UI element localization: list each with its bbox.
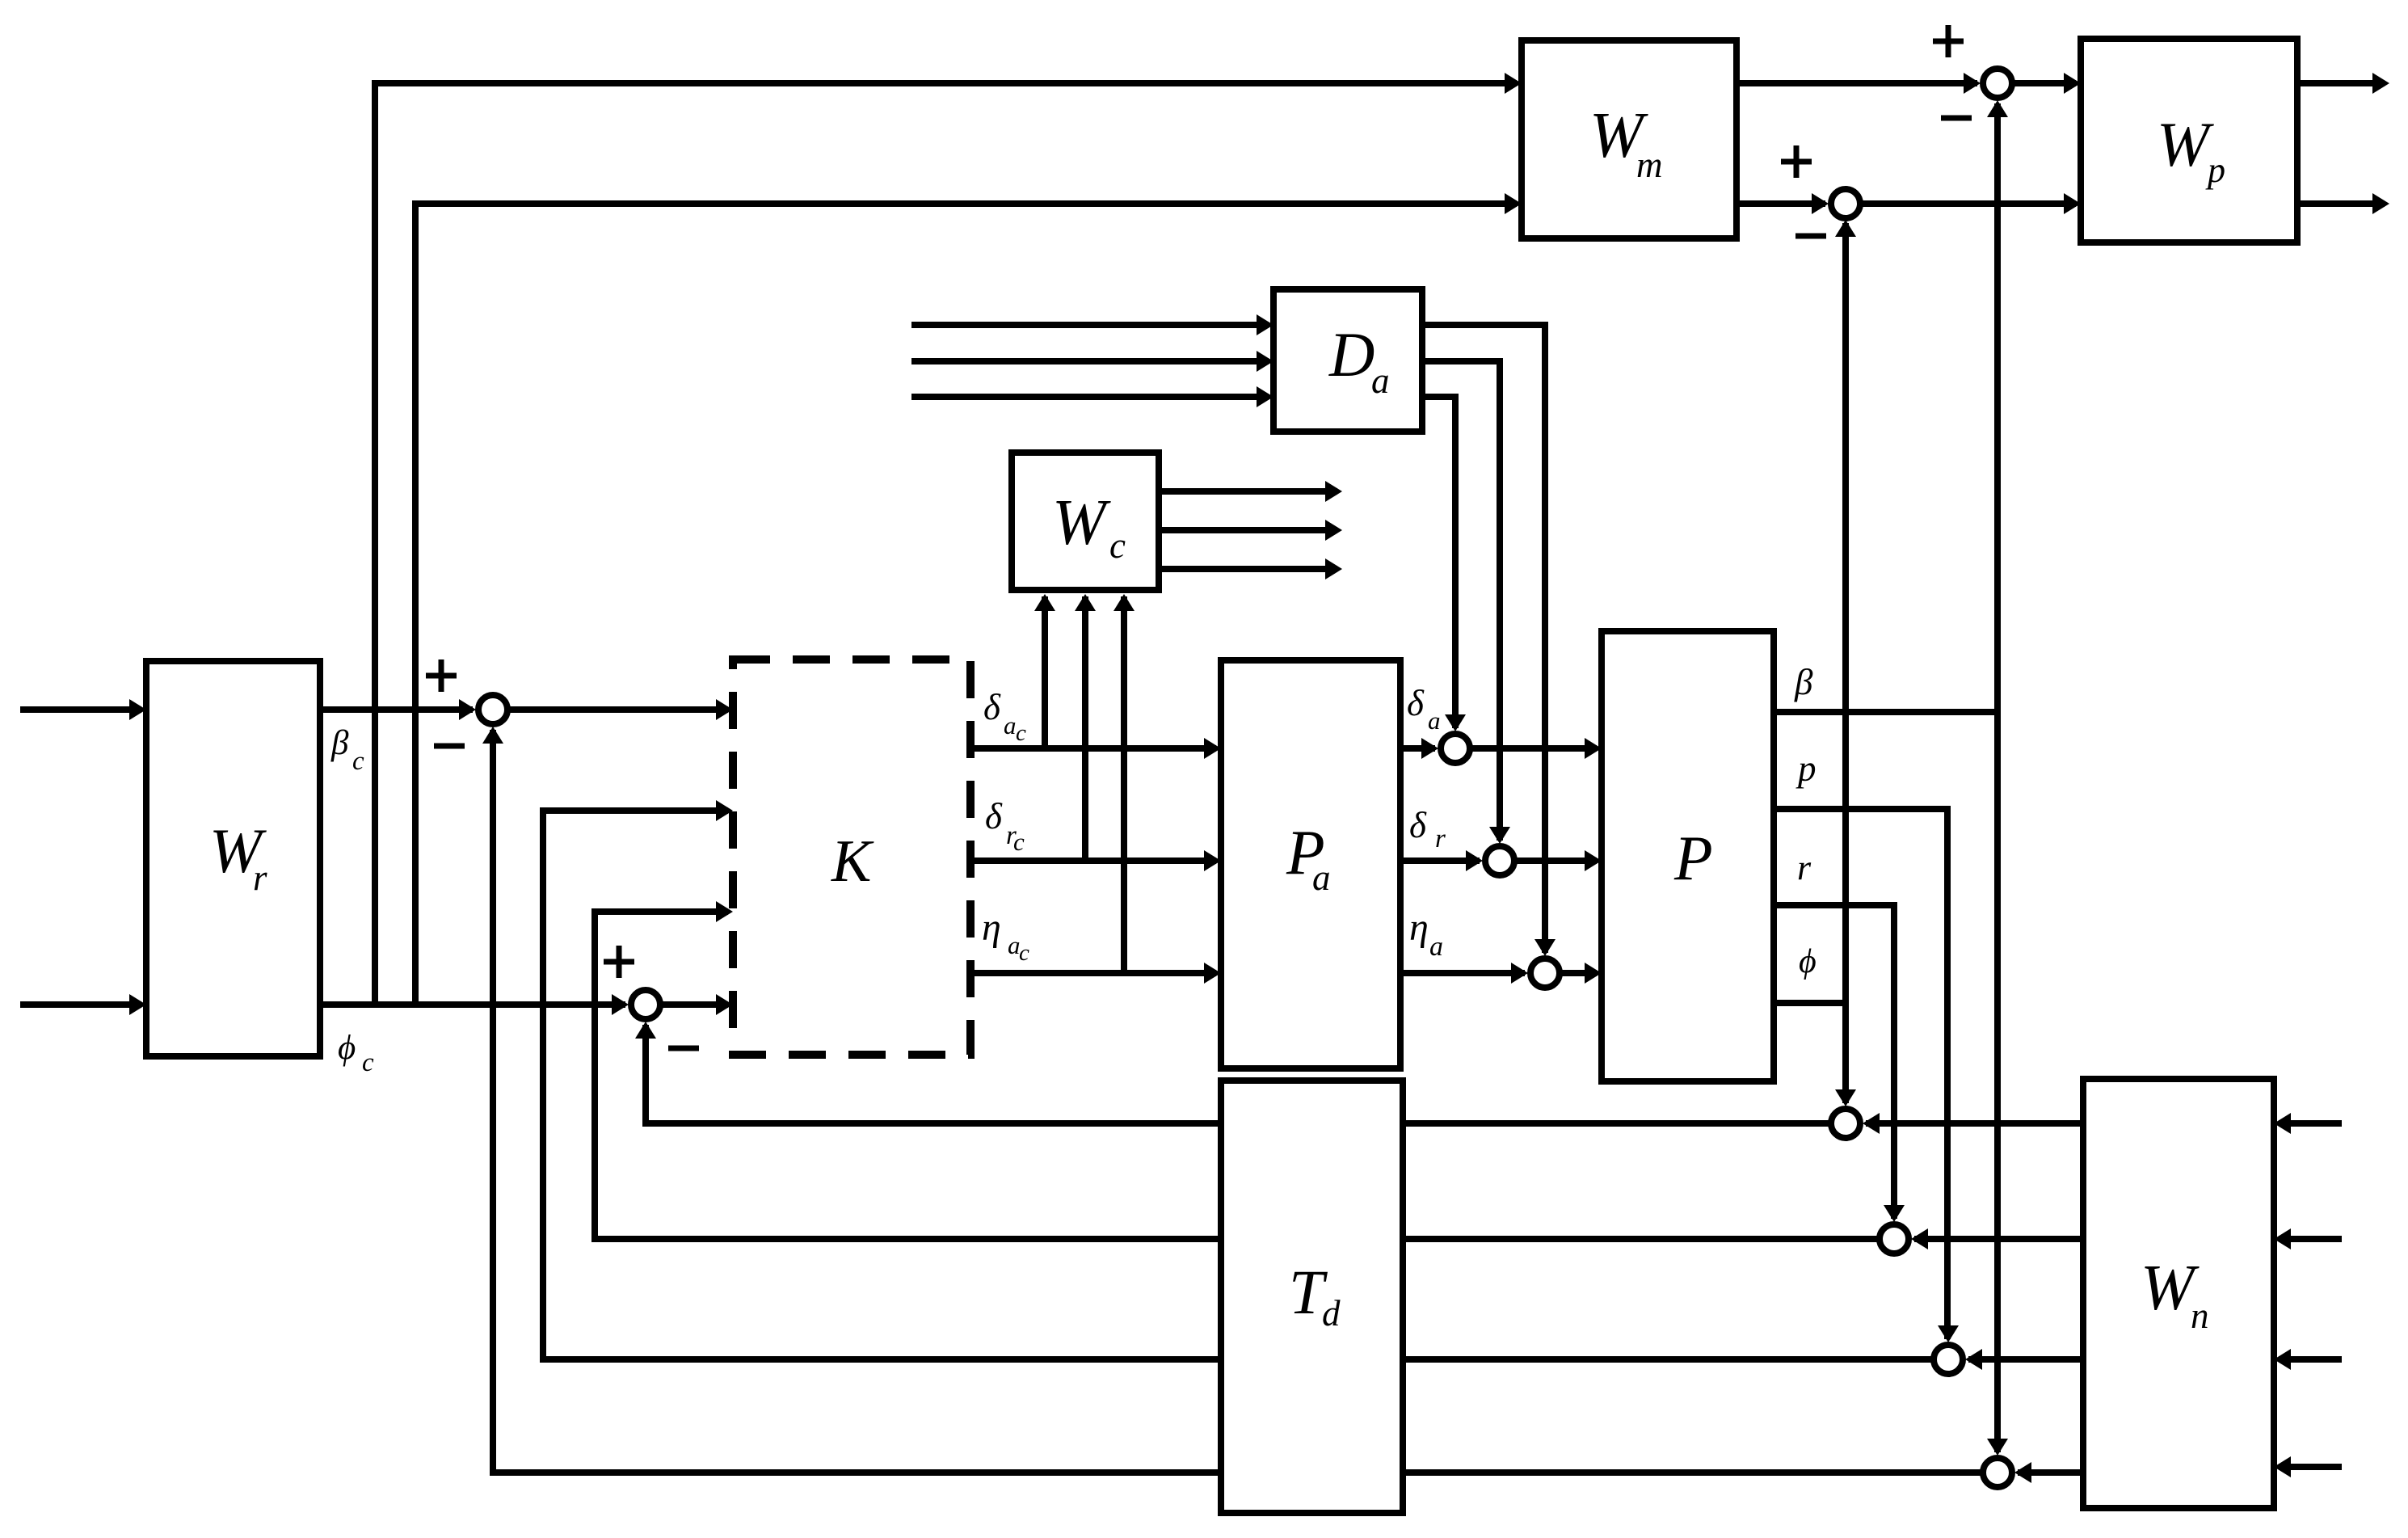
arrowhead Pa delta_a into S3: [1421, 738, 1438, 759]
wire: external input 2 into Wr: [20, 1001, 141, 1008]
wire: S3 into P input 1: [1472, 745, 1597, 752]
arrowhead riser 3 into Wc: [1113, 594, 1135, 611]
arrowhead S8 into Wp: [2064, 193, 2081, 214]
arrowhead S3 into P: [1585, 738, 1602, 759]
wire: feedback row3 (p measured) left segment, riser, into K input 2: [543, 811, 1221, 1359]
arrowhead noise input 4 into Wn: [2274, 1456, 2291, 1477]
wire: Wm output 2 into S8: [1737, 200, 1825, 207]
wire: branch up at x=514 to second line into Wm input 2: [415, 204, 1517, 1005]
svg-text:W: W: [1052, 487, 1111, 558]
wire: beta vertical from S7 down to S11: [1994, 103, 2001, 1452]
wire: P output phi row to T at x2284: [1774, 1000, 1846, 1006]
arrowhead top line into Wm input 1: [1505, 73, 1522, 94]
plus sign at S1: [426, 659, 457, 692]
plus sign at S8: [1781, 145, 1812, 178]
arrowhead Wm output 1 into S7: [1964, 73, 1981, 94]
svg-text:δ: δ: [1407, 683, 1425, 723]
svg-text:D: D: [1328, 319, 1374, 390]
arrowhead Wn output 4 into S11: [2014, 1462, 2031, 1483]
svg-text:a: a: [1428, 706, 1441, 735]
arrowhead Wc output 2: [1325, 520, 1342, 541]
block K (dashed): [733, 659, 970, 1055]
wire: Wp output 1: [2297, 80, 2385, 86]
wire: K output delta_a_c to Pa: [970, 745, 1216, 752]
block Da: [1273, 289, 1422, 432]
wire: external noise input 1 into Wn: [2279, 1120, 2342, 1127]
minus sign at S7: [1941, 116, 1972, 121]
arrowhead r vertical into S9 top: [1884, 1205, 1905, 1222]
wire: Wc output 1: [1159, 488, 1337, 495]
svg-text:m: m: [1636, 145, 1663, 185]
svg-text:p: p: [2205, 150, 2225, 190]
wire: external disturbance input 3 into Da: [911, 394, 1269, 400]
arrowhead Wn output 3 into S10: [1965, 1349, 1982, 1370]
wire: phi_c from Wr to S2: [320, 1001, 625, 1008]
summing junction S10: [1934, 1345, 1963, 1374]
arrowhead into K input 2: [716, 800, 733, 821]
wire: S11 to Td row4: [1403, 1469, 1981, 1476]
wire: phi vertical from S8 down to S6: [1842, 223, 1849, 1103]
svg-text:a: a: [1312, 857, 1331, 898]
wire: S10 to Td row3: [1403, 1356, 1931, 1363]
block Wn: [2083, 1079, 2274, 1508]
wire: Wm output 1 into S7: [1737, 80, 1977, 86]
wire: K output delta_r_c to Pa: [970, 857, 1216, 864]
arrowhead into Wr input 1: [129, 699, 146, 720]
wire: S1 to K input 1: [510, 706, 728, 713]
summing junction S9: [1880, 1224, 1909, 1254]
arrowhead riser 2 into Wc: [1075, 594, 1096, 611]
arrowhead Da branch into S3 top: [1445, 714, 1466, 731]
arrowhead Da branch into S4 top: [1489, 827, 1510, 844]
svg-text:δ: δ: [985, 796, 1003, 836]
arrowhead noise input 1 into Wn: [2274, 1113, 2291, 1134]
arrowhead into K input 1: [716, 699, 733, 720]
svg-text:r: r: [1797, 848, 1812, 887]
wire: S9 to Td row2: [1403, 1236, 1877, 1242]
summing junction S1: [478, 695, 507, 724]
svg-text:K: K: [831, 828, 874, 895]
wire: external noise input 3 into Wn: [2279, 1356, 2342, 1363]
wire: external noise input 4 into Wn: [2279, 1464, 2342, 1470]
wire: S6 to Td row1: [1403, 1120, 1829, 1127]
arrowhead phi vertical into S8 bottom: [1835, 220, 1856, 237]
plus sign at S7: [1933, 25, 1964, 57]
minus sign at S8: [1795, 234, 1826, 239]
svg-text:d: d: [1322, 1293, 1341, 1334]
wire: riser from delta_a_c row up into Wc: [1042, 596, 1048, 752]
block Wp: [2081, 39, 2297, 242]
arrowhead Pa eta_a into S5: [1511, 963, 1528, 984]
arrowhead beta_c into S1: [459, 699, 476, 720]
wire: Wc output 3: [1159, 566, 1337, 572]
block Td: [1221, 1081, 1403, 1513]
wire: noise row4 from Wn to S11: [2018, 1469, 2083, 1476]
svg-text:ϕ: ϕ: [1799, 943, 1817, 980]
wire: Da output 3 right then down into S3: [1422, 397, 1455, 728]
svg-text:n: n: [2191, 1296, 2209, 1336]
wire: S2 to K input 4: [663, 1001, 728, 1008]
arrowhead Wn output 2 into S9: [1911, 1228, 1928, 1249]
arrowhead Wc output 3: [1325, 558, 1342, 579]
arrowhead beta vertical into S11 top: [1987, 1439, 2008, 1456]
arrowhead riser into S1 bottom: [482, 727, 503, 744]
arrowhead into K input 3: [716, 901, 733, 922]
wire: noise row1 from Wn to S6: [1866, 1120, 2083, 1127]
svg-text:p: p: [1795, 748, 1817, 789]
summing junction S11: [1983, 1458, 2012, 1487]
arrowhead eta_a_c into Pa: [1204, 963, 1221, 984]
arrowhead Wn output 1 into S6: [1863, 1113, 1880, 1134]
svg-text:β: β: [1794, 662, 1813, 702]
wire: riser from delta_r_c row up into Wc: [1082, 596, 1088, 864]
arrowhead phi vertical into S6 top: [1835, 1089, 1856, 1106]
wire: Pa output eta_a into S5: [1400, 970, 1525, 976]
wire: external disturbance input 1 into Da: [911, 322, 1269, 328]
wire: beta_c from Wr to S1: [320, 706, 473, 713]
arrowhead delta_r_c into Pa: [1204, 850, 1221, 871]
wire: noise row2 from Wn to S9: [1914, 1236, 2083, 1242]
svg-text:c: c: [352, 747, 364, 776]
plus sign at S2: [604, 946, 634, 978]
wire: S8 into Wp input 2: [1863, 200, 2076, 207]
wire: Da output 2 right then down into S4: [1422, 361, 1500, 841]
arrowhead noise input 2 into Wn: [2274, 1228, 2291, 1249]
arrowhead Da branch into S5 top: [1534, 939, 1556, 956]
arrowhead beta vertical into S7 bottom: [1987, 100, 2008, 117]
wire: P output beta row to T at x2472: [1774, 709, 1998, 715]
block Wc: [1012, 453, 1159, 590]
arrowhead Pa delta_r into S4: [1466, 850, 1483, 871]
arrowhead S7 into Wp: [2064, 73, 2081, 94]
arrowhead phi_c into S2: [612, 994, 629, 1015]
arrowhead into Wr input 2: [129, 994, 146, 1015]
arrowhead riser 1 into Wc: [1034, 594, 1055, 611]
wire: riser from eta_a_c row up into Wc: [1121, 596, 1127, 976]
summing junction S5: [1530, 959, 1560, 988]
block P: [1602, 631, 1774, 1081]
arrowhead disturbance 1 into Da: [1257, 314, 1273, 335]
summing junction S2: [631, 990, 660, 1019]
svg-text:r: r: [1435, 824, 1446, 853]
svg-text:r: r: [253, 857, 267, 898]
block Wr: [146, 661, 320, 1056]
arrowhead disturbance 3 into Da: [1257, 386, 1273, 407]
svg-text:c: c: [1013, 828, 1025, 856]
arrowhead Wp output 2: [2372, 193, 2389, 214]
svg-text:a: a: [1004, 711, 1017, 740]
arrowhead Wc output 1: [1325, 481, 1342, 502]
wire: feedback row1 (phi measured) left segment, riser into S2: [646, 1025, 1221, 1123]
block Wm: [1522, 40, 1737, 238]
svg-text:δ: δ: [983, 687, 1001, 727]
wire: Wp output 2: [2297, 200, 2385, 207]
wire: feedback row2 (r measured) left segment, riser, into K input 3: [595, 912, 1221, 1239]
wire: Pa output delta_r into S4: [1400, 857, 1480, 864]
arrowhead disturbance 2 into Da: [1257, 351, 1273, 372]
arrowhead noise input 3 into Wn: [2274, 1349, 2291, 1370]
svg-text:P: P: [1673, 823, 1713, 893]
summing junction S7: [1983, 69, 2012, 98]
summing junction S3: [1441, 734, 1470, 763]
wire: S4 into P input 2: [1517, 857, 1597, 864]
wire: external disturbance input 2 into Da: [911, 358, 1269, 364]
wire: P output r row then down into S9: [1774, 905, 1894, 1219]
arrowhead p vertical into S10 top: [1938, 1325, 1959, 1342]
svg-text:β: β: [330, 724, 349, 762]
svg-text:c: c: [362, 1048, 374, 1077]
minus sign at S2: [668, 1046, 699, 1051]
wire: Da output 1 right then down into S5: [1422, 325, 1545, 953]
minus sign at S1: [434, 744, 465, 749]
wire: P output p row then down into S10: [1774, 809, 1947, 1339]
arrowhead Wp output 1: [2372, 73, 2389, 94]
block Pa: [1221, 660, 1400, 1068]
svg-text:W: W: [2157, 109, 2214, 179]
wire: feedback row4 (beta measured) left segment, riser into S1: [493, 730, 1221, 1473]
arrowhead S4 into P: [1585, 850, 1602, 871]
svg-text:a: a: [1371, 360, 1390, 401]
svg-text:ϕ: ϕ: [338, 1029, 356, 1067]
summing junction S6: [1831, 1109, 1860, 1138]
svg-text:c: c: [1016, 720, 1026, 746]
summing junction S8: [1831, 189, 1860, 218]
arrowhead second line into Wm input 2: [1505, 193, 1522, 214]
wire: noise row3 from Wn to S10: [1968, 1356, 2083, 1363]
wire: branch up at x=464 to top line into Wm input 1: [375, 83, 1517, 1005]
wire: Pa output delta_a into S3: [1400, 745, 1435, 752]
arrowhead Wm output 2 into S8: [1812, 193, 1829, 214]
wire: external noise input 2 into Wn: [2279, 1236, 2342, 1242]
svg-text:δ: δ: [1409, 805, 1427, 845]
svg-text:a: a: [1429, 932, 1443, 962]
svg-text:η: η: [982, 906, 1001, 949]
svg-text:η: η: [1409, 906, 1429, 949]
arrowhead into K input 4: [716, 994, 733, 1015]
wire: Wc output 2: [1159, 527, 1337, 533]
summing junction S4: [1485, 846, 1514, 875]
wire: S7 into Wp input 1: [2014, 80, 2076, 86]
wire: external input 1 into Wr: [20, 706, 141, 713]
arrowhead riser into S2 bottom: [635, 1022, 656, 1039]
svg-text:c: c: [1019, 940, 1029, 966]
wire: S5 into P input 3: [1562, 970, 1597, 976]
wire: K output eta_a_c to Pa: [970, 970, 1216, 976]
arrowhead S5 into P: [1585, 963, 1602, 984]
arrowhead delta_a_c into Pa: [1204, 738, 1221, 759]
svg-text:c: c: [1109, 525, 1126, 566]
